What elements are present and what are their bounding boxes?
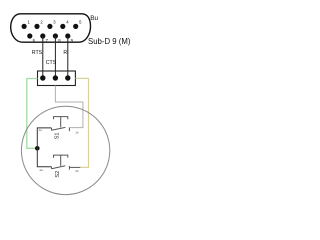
green wire (RTS to junction): [27, 79, 38, 149]
wire pin7 to terminal 1 (RTS): [42, 36, 44, 78]
svg-text:2b: 2b: [75, 169, 79, 173]
pin 8: [53, 33, 58, 38]
svg-text:S2: S2: [55, 171, 61, 178]
wire junction up to S1 left: [37, 128, 51, 148]
svg-text:Bu: Bu: [90, 15, 98, 22]
pushbutton S2: [52, 155, 70, 170]
grey wire (CTS to S1 right): [55, 86, 83, 128]
wire junction down to S2 left: [37, 148, 51, 167]
terminal dot 2: [53, 75, 58, 80]
pushbutton S1: [52, 117, 70, 132]
svg-text:Sub-D 9 (M): Sub-D 9 (M): [88, 37, 131, 46]
pin 3: [47, 24, 52, 29]
connector Bu shell (Sub-D 9 male): [11, 14, 91, 42]
pin 5: [73, 24, 78, 29]
yellow wire (RI to S2): [75, 78, 88, 167]
wire pin8 to terminal 2 (CTS): [54, 36, 56, 78]
pin 1: [22, 24, 27, 29]
wire pin9 to terminal 3 (RI): [67, 36, 69, 78]
pin 4: [60, 24, 65, 29]
svg-text:S1: S1: [54, 133, 60, 140]
wire S2 right to yellow: [69, 166, 80, 168]
pin 7: [40, 33, 45, 38]
svg-text:RI: RI: [63, 50, 68, 56]
terminal dot 3: [65, 75, 70, 80]
junction node: [35, 146, 40, 151]
svg-text:2a: 2a: [40, 168, 44, 172]
pin 9: [65, 33, 70, 38]
pin 2: [34, 24, 39, 29]
pin 6: [27, 33, 32, 38]
housing circle: [21, 106, 109, 194]
svg-text:RTS: RTS: [32, 50, 43, 56]
svg-text:CTS: CTS: [46, 60, 57, 66]
terminal dot 1: [40, 75, 45, 80]
svg-text:1a: 1a: [39, 128, 43, 132]
svg-text:1b: 1b: [75, 131, 79, 135]
terminal block: [38, 71, 76, 86]
